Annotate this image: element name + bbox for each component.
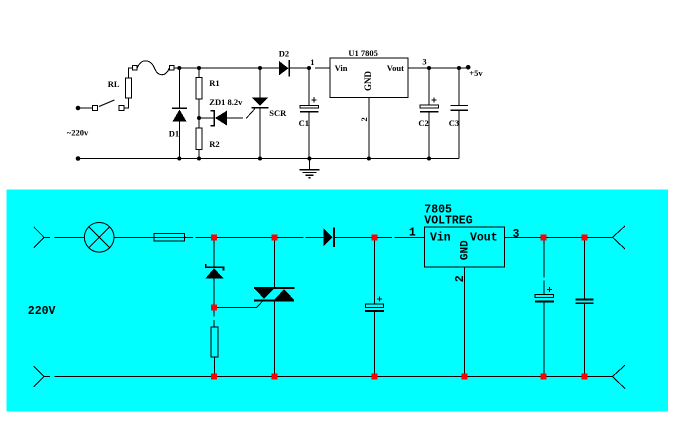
diode triangle (bottom schematic) [324,228,333,246]
node D1 bottom junction [177,157,181,161]
wire break gap zener gate wire [243,117,246,119]
node red junction out cap top [582,234,588,240]
wire top rail [185,236,324,238]
switch S1 blade [99,100,114,107]
filter cap top plate [366,304,384,308]
wire to zener [199,117,214,119]
node red junction filter cap top [371,234,377,240]
ground bar 1 [299,169,319,171]
output cap bottom plate [576,302,594,304]
wire [128,68,132,78]
wire [428,112,430,159]
wire to regulator [335,236,424,238]
lamp X cross [89,227,110,248]
node SCR bottom junction [258,157,262,161]
wire break gap after fuse [193,236,196,239]
capacitor C2 bottom plate [420,111,439,113]
regulator box 7805 [424,227,504,267]
wire [213,311,215,328]
triac bottom bar [254,299,294,301]
wire break gap before diode [304,236,306,239]
capacitor C3 bottom plate [451,109,469,111]
node C3 top junction [457,66,461,70]
switch S1 right terminal [119,106,124,111]
wire D1 branch [178,68,180,108]
input terminal chevron bottom-left [34,366,44,376]
capacitor C1 bottom plate [300,111,319,113]
wire [373,312,375,374]
wire [44,236,84,238]
diode D1 cathode bar [172,107,187,109]
ground bar 2 [302,172,316,174]
wire break gap top rail after left chevron [50,236,55,239]
svg-text:3: 3 [422,57,426,67]
svg-text:R1: R1 [209,78,219,88]
wire [213,279,215,305]
filter cap bottom plate [365,310,384,312]
wire bottom rail [78,158,459,160]
wire [584,303,586,373]
triac right triangle [274,289,294,299]
wire [259,108,261,159]
svg-text:R2: R2 [209,139,219,149]
node junction after squiggle [177,66,181,70]
svg-text:RL: RL [108,79,120,89]
wire [259,68,261,98]
fuse body [154,234,185,242]
svg-text:U1 7805: U1 7805 [348,48,378,58]
wire C2 branch [428,68,430,105]
zener cathode bar with hooks (bottom schematic) [206,264,224,271]
wire break gap bottom rail after left chevron [50,376,55,379]
wire electrolytic cap branch [543,240,545,294]
svg-text:GND: GND [460,240,472,260]
svg-text:GND: GND [363,71,373,92]
output terminal chevron top-right [613,226,626,237]
svg-text:Vin: Vin [335,63,348,73]
cyan background panel [7,190,669,412]
output cap top plate [576,299,594,301]
wire triac branch top [274,240,276,287]
node SCR top junction [258,66,262,70]
svg-text:D2: D2 [279,49,289,59]
wire [124,98,128,108]
resistor body (bottom schematic) [211,327,218,357]
svg-text:+5v: +5v [469,68,483,78]
wire [458,110,460,158]
lamp circle [84,223,114,253]
capacitor C2 plus sign [432,99,437,101]
svg-text:C3: C3 [449,118,459,128]
wire filter cap branch [373,240,375,304]
node +5v output terminal [466,65,471,70]
fuse/lamp left terminal square [133,66,138,71]
node red junction zener branch top [211,234,217,240]
node red junction triac branch top [272,234,278,240]
node red junction gate node [211,305,217,311]
svg-text:Vin: Vin [430,231,451,244]
resistor RL body [126,78,132,98]
svg-text:220V: 220V [28,305,56,318]
wire [214,357,216,374]
wire zener to SCR gate [227,109,255,118]
zener triangle (bottom schematic) [205,268,224,278]
wire zener branch [213,240,215,267]
ground stem [308,159,310,170]
filter cap plus sign [377,298,382,300]
node red junction filter cap bottom [371,374,377,380]
electrolytic cap plus sign [547,288,552,290]
svg-text:C1: C1 [299,118,309,128]
wire GND pin to bottom rail [464,267,466,374]
node: AC input top terminal [76,106,81,111]
node GND pin bottom junction [367,157,371,161]
node red junction GND bottom [462,374,468,380]
node 1 junction [307,66,311,70]
svg-text:ZD1 8.2v: ZD1 8.2v [209,97,243,107]
IC U1 box [330,58,408,98]
node AC input bottom terminal [76,156,81,161]
node C2 top junction [427,66,431,70]
node red junction electrolytic cap top [541,234,547,240]
node red junction triac bottom [272,374,278,380]
wire [80,107,92,109]
diode D1 triangle [173,110,187,122]
node C2 bottom junction [427,157,431,161]
triac top bar [254,287,294,289]
wire [178,122,180,159]
fuse/lamp right terminal square [169,66,174,71]
gate wire to triac [217,301,263,308]
electrolytic cap top plate [535,294,553,297]
SCR cathode bar [252,107,269,109]
wire Vout rail [408,67,468,69]
wire bottom rail [44,376,613,378]
wire [114,236,154,238]
wire D2 to node 1 [289,67,330,69]
wire [198,99,200,128]
wire pin3 rail [504,236,612,238]
wire break gap pin1 wire [311,67,315,69]
node C1/ground junction [307,157,311,161]
node R1/R2/ZD1 junction [197,116,201,120]
triac left triangle [255,289,274,299]
fuse through line [154,236,185,238]
wire C3 branch [458,68,460,105]
resistor R2 body [196,128,202,150]
svg-text:VOLTREG: VOLTREG [424,215,472,228]
node red junction output cap bottom [582,374,588,380]
input terminal chevron top-left [34,227,44,237]
SCR triangle [252,97,269,106]
svg-text:2: 2 [359,117,369,121]
wire C1 branch [308,68,310,106]
diode D2 cathode bar [288,60,290,77]
diode D2 triangle [279,61,289,76]
capacitor C1 plus sign [312,99,317,101]
svg-text:3: 3 [513,228,520,241]
node red junction electrolytic bottom [541,374,547,380]
svg-text:Vout: Vout [470,231,498,244]
node red junction resistor bottom [211,374,217,380]
electrolytic cap bottom plate [535,300,554,302]
wire output cap branch [584,240,586,299]
resistor R1 body [196,78,202,100]
zener ZD1 cathode bar with hooks [210,111,214,126]
svg-text:1: 1 [409,227,416,240]
zener ZD1 triangle [215,111,227,126]
squiggle wire (lamp filament) [137,61,169,75]
svg-text:1: 1 [310,57,314,67]
wire break gap before pin1 label [392,236,395,239]
svg-text:C2: C2 [418,118,428,128]
svg-text:Vout: Vout [387,63,404,73]
wire triac to bottom rail [274,300,276,373]
node R1 top junction [197,66,201,70]
output terminal chevron bottom-right [613,365,626,376]
wire break gap zener branch [213,317,216,321]
wire [198,150,200,159]
switch S1 left terminal [92,105,97,110]
wire GND pin [368,97,370,158]
ground bar 3 [305,174,313,176]
svg-text:D1: D1 [169,129,179,139]
diode cathode bar [333,228,335,248]
svg-text:~220v: ~220v [67,128,89,138]
wire [543,302,545,373]
ground bar 4 [308,177,310,179]
svg-text:SCR: SCR [269,108,287,118]
wire [308,112,310,158]
capacitor C1 top plate [300,106,319,109]
wire [198,68,200,78]
wire break gap electrolytic cap branch [543,278,546,281]
capacitor C2 top plate [420,105,439,108]
capacitor C3 top plate [451,105,469,107]
node R2 bottom junction [197,157,201,161]
wire top rail [174,67,279,69]
